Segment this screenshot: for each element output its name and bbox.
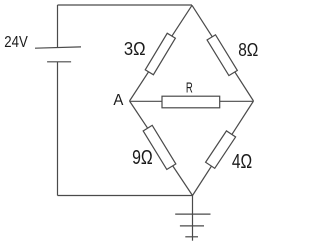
resistor 3Ω body (145, 33, 175, 74)
wire left upper (battery + lead) (57, 5, 59, 48)
ground bar 1 (175, 213, 210, 215)
ground bar 2 (180, 225, 204, 227)
wire apex to right node (8Ω branch) (192, 5, 254, 101)
svg-text:R: R (186, 80, 193, 96)
wire top (battery + to bridge apex) (58, 4, 193, 6)
resistor 8Ω body (207, 35, 237, 76)
wire node A to right node (R branch) (130, 100, 254, 102)
svg-text:8Ω: 8Ω (238, 39, 258, 60)
svg-text:4Ω: 4Ω (232, 151, 252, 173)
wire apex to node A (3Ω branch) (130, 5, 193, 101)
svg-text:9Ω: 9Ω (132, 147, 153, 169)
resistor 9Ω body (143, 125, 176, 169)
svg-text:24V: 24V (4, 34, 28, 51)
battery V1 short plate (47, 61, 71, 63)
battery V1 long plate (35, 47, 81, 48)
resistor 4Ω body (206, 131, 236, 168)
svg-text:3Ω: 3Ω (124, 38, 146, 59)
wire right node to bottom node (4Ω branch) (193, 101, 254, 196)
resistor R body (162, 96, 220, 108)
ground bar 3 (185, 236, 198, 238)
wire node A to bottom node (9Ω branch) (130, 101, 193, 196)
ground stem (192, 196, 194, 241)
wire bottom (battery - to bridge bottom node) (58, 195, 193, 197)
svg-text:A: A (113, 92, 123, 109)
wire left lower (battery - lead) (57, 62, 59, 196)
